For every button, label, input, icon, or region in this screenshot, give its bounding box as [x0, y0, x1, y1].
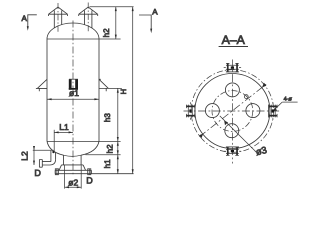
vessel shell right wall — [98, 39, 100, 141]
nozzle hole left — [205, 104, 219, 118]
extension line neck top level — [86, 154, 121, 156]
side nozzle elbow — [42, 159, 55, 165]
svg-text:ø1: ø1 — [69, 88, 79, 98]
section vertical centerline — [231, 60, 233, 164]
gasket circle dash-dot — [191, 70, 274, 153]
svg-text:h3: h3 — [103, 113, 112, 122]
vessel shell left wall — [46, 39, 48, 141]
coupling fitting on centerline — [69, 79, 78, 90]
dimension h3 — [117, 88, 119, 141]
top tangent line — [47, 38, 121, 40]
weld dot — [52, 151, 54, 153]
hub slants — [59, 165, 86, 170]
bottom tangent line — [47, 140, 121, 142]
dimension phi2 — [65, 165, 82, 189]
nozzle N2 pipe — [85, 11, 92, 29]
svg-text:A: A — [152, 7, 158, 16]
side nozzle flange — [39, 160, 42, 168]
svg-text:h1: h1 — [103, 159, 112, 168]
bottom flange plate — [55, 170, 91, 173]
section marker A right — [139, 15, 151, 30]
section marker A left — [28, 15, 37, 27]
svg-text:L2: L2 — [20, 151, 30, 161]
nozzle N1 pipe — [54, 11, 61, 29]
dimension h1 — [117, 155, 119, 174]
nozzle N2 centerline — [87, 3, 89, 33]
bottom flange bolt left — [55, 169, 58, 175]
hub top line — [62, 164, 84, 166]
bottom flange bolt right — [88, 169, 91, 175]
section horizontal centerline — [184, 110, 282, 112]
bottom head left curve — [47, 141, 64, 155]
nozzle N2 flange cone — [79, 7, 98, 16]
support lug right — [99, 79, 108, 91]
svg-text:L1: L1 — [59, 122, 69, 132]
dimension h2 bottom — [117, 141, 119, 154]
bottom head sag arc — [64, 155, 82, 156]
top head dome — [47, 23, 99, 39]
lug extension line right — [99, 87, 122, 89]
nozzle N1 centerline — [57, 3, 59, 32]
shell outer circle — [195, 74, 270, 149]
flange fitting S — [224, 147, 241, 156]
dimension L1 — [54, 131, 73, 133]
svg-text:A: A — [22, 14, 28, 23]
svg-text:h2: h2 — [106, 144, 115, 153]
bolt circle dash-dot — [212, 91, 253, 132]
svg-text:D: D — [86, 176, 93, 186]
side nozzle stub — [51, 151, 56, 162]
nozzle hole top — [225, 83, 239, 97]
bottom head right curve — [81, 141, 99, 155]
dimension phi1 — [47, 98, 99, 100]
nozzle hole bottom — [225, 124, 239, 138]
flange fitting N — [224, 63, 241, 72]
svg-text:D: D — [34, 168, 41, 178]
svg-text:ø3: ø3 — [255, 145, 268, 158]
dimension H — [132, 7, 134, 174]
svg-text:A–A: A–A — [222, 33, 246, 47]
vessel centerline — [72, 21, 74, 177]
bottom neck — [64, 155, 82, 165]
extension line top (nozzle apex) — [90, 6, 134, 8]
flange fitting E — [269, 102, 278, 119]
dimension L2 — [33, 149, 54, 151]
flange fitting W — [186, 102, 195, 119]
phi3 leader — [220, 116, 257, 152]
dimension h2 top — [115, 7, 117, 39]
svg-text:H: H — [119, 89, 128, 94]
small hole on bolt circle — [244, 95, 248, 99]
nozzle hole right — [246, 104, 260, 118]
svg-text:ø2: ø2 — [68, 177, 78, 187]
nozzle N1 flange cone — [49, 7, 68, 16]
support lug left — [36, 79, 47, 91]
diagonal dimension line — [199, 83, 267, 137]
svg-text:h2: h2 — [102, 28, 111, 37]
